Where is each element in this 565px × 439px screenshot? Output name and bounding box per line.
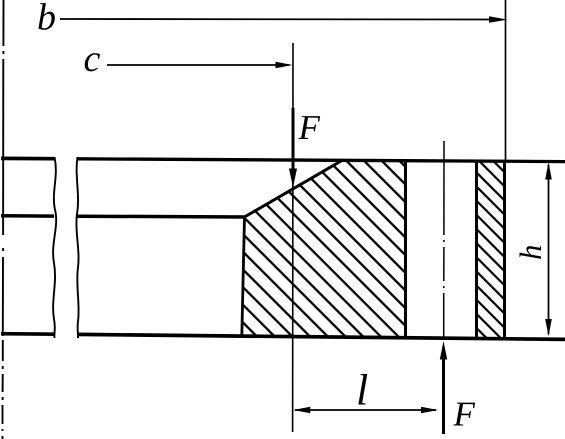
wedge right edge — [404, 161, 407, 338]
svg-text:l: l — [356, 366, 368, 415]
h arrowhead down — [545, 319, 552, 336]
svg-text:F: F — [298, 108, 321, 147]
l arrowhead right — [421, 407, 438, 413]
h dimension line — [548, 165, 550, 334]
wedge left edge — [242, 217, 245, 337]
svg-text:h: h — [513, 245, 548, 261]
dimension b line — [60, 18, 502, 21]
dimension b arrowhead (right) — [489, 16, 508, 22]
centerline: shaft axis (left vertical dash-dot) — [3, 0, 4, 439]
h arrowhead up — [545, 162, 552, 179]
force F arrowhead (up) — [440, 341, 447, 360]
step line (left stub) — [1, 214, 54, 218]
svg-text:c: c — [84, 38, 101, 80]
beam top edge (main) — [77, 159, 565, 162]
key band right edge — [503, 161, 506, 338]
key band hatched section — [477, 161, 504, 338]
dimension c line — [107, 64, 289, 66]
force F shaft (bottom, thick) — [442, 357, 445, 434]
force F arrowhead (down) — [289, 169, 297, 188]
wedge slant edge — [245, 160, 343, 217]
beam top edge (left stub) — [1, 157, 54, 161]
key wedge hatched section — [242, 160, 406, 337]
l dimension line — [295, 409, 436, 411]
key band left edge — [475, 161, 478, 338]
beam bottom edge (main) — [78, 334, 565, 339]
break line A (wavy) — [53, 157, 56, 338]
step line (main, to key) — [77, 214, 246, 218]
break line B (wavy) — [76, 157, 78, 338]
extension line for b (right) — [505, 0, 507, 161]
l arrowhead left — [293, 407, 310, 413]
centerline: hub axis (dash-dot) — [443, 141, 445, 338]
extension line through force F (vertical thin) — [292, 43, 294, 432]
svg-text:b: b — [37, 0, 56, 39]
force F shaft (top, thick) — [292, 108, 295, 172]
beam bottom edge (left stub) — [1, 332, 55, 336]
svg-text:F: F — [453, 395, 476, 434]
dimension c arrowhead (right) — [276, 62, 293, 68]
